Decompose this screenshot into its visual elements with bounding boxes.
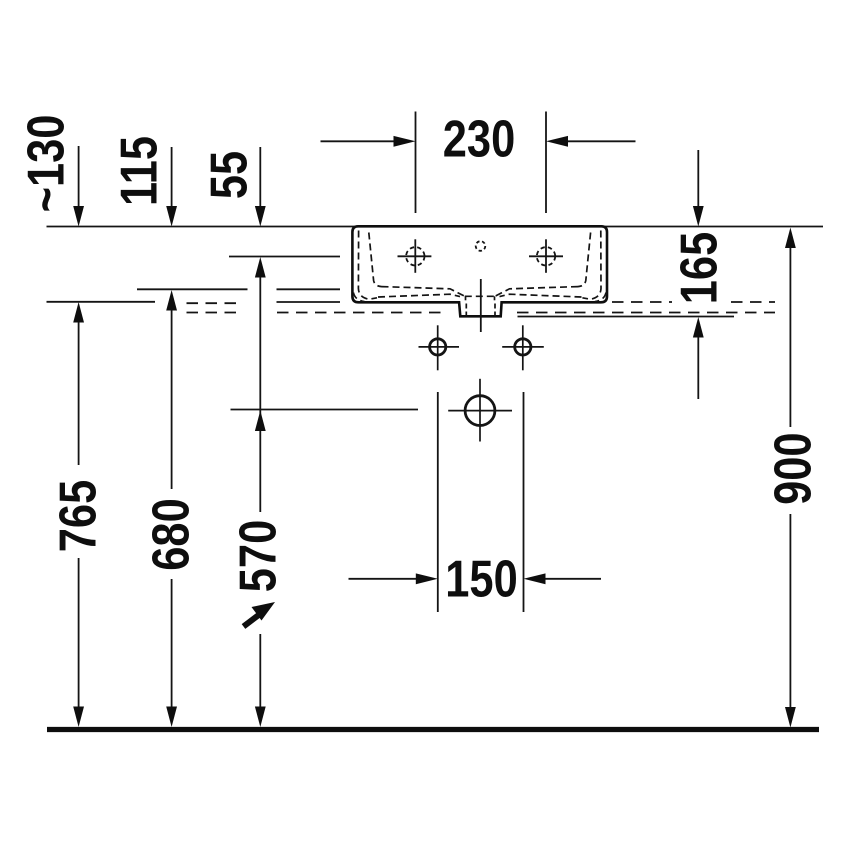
- dimension 150: [349, 573, 602, 584]
- siphon hole: [448, 379, 512, 442]
- svg-text:900: 900: [765, 432, 823, 504]
- wire dashed countertop line lower left: [187, 312, 244, 314]
- mounting hole right: [502, 325, 544, 370]
- wire dashed countertop line upper right: [612, 301, 672, 303]
- wire 570 reference line: [231, 409, 419, 411]
- dimension 165 arrows: [693, 150, 704, 399]
- wire 230 extension line left: [415, 112, 417, 214]
- floor line: [47, 727, 819, 732]
- svg-text:680: 680: [143, 498, 201, 570]
- dimension 230: [321, 136, 636, 147]
- basin interior hidden lines (right): [578, 231, 606, 302]
- dimension 115 arrow: [166, 147, 177, 227]
- svg-text:765: 765: [50, 480, 108, 552]
- svg-text:150: 150: [445, 551, 517, 609]
- svg-text:570: 570: [230, 520, 288, 592]
- dimension ~130 arrow: [73, 146, 84, 227]
- wire 165 lower reference line: [518, 316, 735, 318]
- basin interior hidden lines (left): [353, 231, 381, 302]
- washbasin outline with drain: [352, 226, 607, 316]
- wire 680 reference line left: [137, 288, 248, 290]
- wire 680 reference line right: [277, 288, 341, 290]
- adjustability arrow symbol: [244, 602, 276, 627]
- wire 150 extension line right: [523, 392, 525, 612]
- mounting hole left: [419, 325, 460, 370]
- faucet hole right: [529, 239, 563, 272]
- drain hidden rectangle: [465, 295, 495, 297]
- svg-text:230: 230: [443, 111, 515, 169]
- dimension 55 arrow up / 570 shared line: [255, 257, 266, 727]
- wire dashed countertop line upper left: [187, 302, 244, 304]
- svg-text:~130: ~130: [18, 115, 76, 213]
- wire top reference line (basin rim level): [47, 226, 824, 228]
- basin interior bottom hidden lines: [378, 287, 582, 316]
- wire 150 extension line left: [437, 392, 439, 612]
- wire 230 extension line right: [545, 112, 547, 214]
- wire dashed countertop line lower mid: [277, 312, 446, 314]
- dimension 55 arrow down: [255, 147, 266, 227]
- wire dashed countertop line lower right: [517, 312, 775, 314]
- dimension 765 line: [73, 302, 84, 727]
- wire 55 reference line: [229, 256, 340, 258]
- svg-text:165: 165: [671, 232, 729, 304]
- overflow hole: [476, 241, 486, 251]
- dimension 680 line: [166, 290, 177, 727]
- wire 765 reference line: [47, 301, 156, 303]
- dimension 900 line: [785, 228, 796, 728]
- wire basin-bottom pointer line: [277, 301, 341, 303]
- svg-text:115: 115: [111, 136, 169, 206]
- drain center line: [480, 279, 482, 332]
- faucet hole left: [398, 239, 432, 272]
- svg-text:55: 55: [201, 151, 259, 199]
